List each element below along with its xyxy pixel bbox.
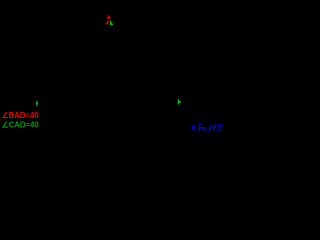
point C marker (green tick) [178, 99, 182, 104]
svg-text:∠CAD=40: ∠CAD=40 [2, 120, 40, 129]
watermark glyph f-bar (blue) [199, 124, 206, 131]
watermark glyph X (blue) [192, 125, 196, 130]
angle CAD sector (green triangle) [110, 20, 113, 25]
watermark slash (blue) [208, 125, 212, 131]
point B marker (green tick) [36, 101, 38, 106]
watermark glyph P (blue) [213, 125, 217, 132]
svg-text:∠BAD=40: ∠BAD=40 [2, 111, 40, 120]
angle BAD sector (red triangle) [105, 20, 108, 25]
point A marker (red cross) [107, 15, 111, 19]
watermark glyph Y (blue) [218, 124, 224, 131]
